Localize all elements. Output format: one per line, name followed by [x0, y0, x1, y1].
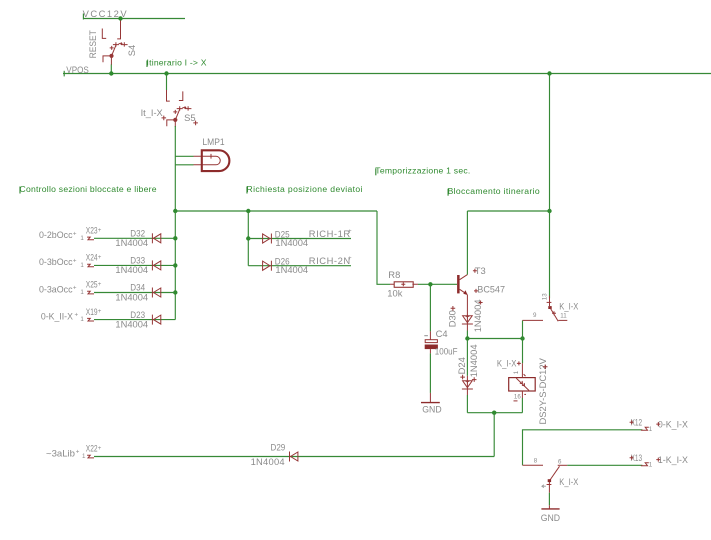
svg-text:K_I-X: K_I-X	[559, 476, 579, 487]
pin RICH-2N	[309, 255, 352, 266]
svg-text:1: 1	[82, 453, 86, 460]
junction bottom node	[492, 411, 496, 415]
label 1-K_I-X	[656, 454, 688, 465]
label D24	[456, 357, 467, 379]
capacitor C4	[424, 328, 457, 357]
relay coil K_I-X	[509, 363, 536, 398]
svg-text:0-K_II-X: 0-K_II-X	[41, 310, 74, 321]
label Controllo sezioni bloccate e libere	[20, 184, 157, 194]
svg-text:Itinerario I -> X: Itinerario I -> X	[147, 58, 207, 68]
resistor R8	[387, 269, 418, 299]
svg-text:S4: S4	[126, 45, 137, 56]
svg-text:1N4004: 1N4004	[472, 299, 483, 332]
svg-text:1N4004: 1N4004	[115, 264, 148, 275]
diode D29	[290, 452, 298, 462]
wire row3	[94, 292, 175, 294]
junction D25	[246, 236, 250, 240]
svg-text:+: +	[75, 312, 79, 319]
svg-text:1N4004: 1N4004	[115, 237, 148, 248]
wire X13 output	[567, 464, 642, 466]
junction bus row2	[173, 263, 177, 267]
pin X19	[87, 318, 94, 321]
junction R8/C4	[428, 282, 432, 286]
svg-text:1N4004: 1N4004	[468, 344, 479, 377]
wire contact to GND	[548, 493, 550, 506]
relay contact K_I-X (top)	[523, 296, 568, 322]
junction bus row3	[173, 290, 177, 294]
svg-text:1N4004: 1N4004	[115, 291, 148, 302]
net VPOS wire	[63, 73, 711, 75]
junction rail/deviatoi	[246, 209, 250, 213]
svg-text:1N4004: 1N4004	[275, 237, 308, 248]
row 1: pin X23, diode D32	[39, 225, 175, 249]
svg-text:9: 9	[533, 312, 537, 319]
svg-text:16: 16	[514, 394, 521, 401]
junction VCC12V/S4	[118, 16, 122, 20]
wire node horizontal	[467, 338, 522, 340]
label 0-3aOcc	[39, 283, 77, 294]
junction VPOS/S5	[164, 71, 168, 75]
diode D24	[462, 376, 473, 395]
svg-text:Controllo sezioni bloccate e l: Controllo sezioni bloccate e libere	[20, 184, 157, 194]
diode D25	[263, 234, 272, 244]
label BC547	[474, 283, 505, 294]
pin X22	[46, 443, 102, 461]
svg-text:1: 1	[80, 235, 84, 242]
svg-text:X23: X23	[86, 225, 98, 236]
label VCC12V	[83, 8, 128, 20]
svg-text:R8: R8	[388, 269, 400, 280]
wire row1	[94, 237, 175, 239]
label X24	[86, 252, 102, 263]
label D30	[446, 306, 457, 327]
ground GND (contact)	[541, 505, 561, 523]
wire pin9 riser	[522, 320, 524, 338]
svg-text:1N4004: 1N4004	[115, 318, 148, 329]
svg-text:+: +	[98, 254, 102, 261]
wire relay pin16 down	[521, 398, 523, 413]
wire D30 to node	[466, 331, 468, 339]
label 0-K_I-X	[656, 419, 688, 430]
row 4: pin X19, diode D23	[41, 306, 175, 330]
wire 3aLib row	[94, 456, 494, 458]
wire D26 branch	[248, 265, 351, 267]
svg-text:0-K_I-X: 0-K_I-X	[658, 419, 689, 430]
label 1N4004 (D30)	[472, 299, 483, 332]
label DS2Y-S-DC12V	[537, 357, 548, 424]
svg-text:13: 13	[542, 293, 549, 300]
svg-text:D24: D24	[456, 357, 467, 374]
svg-text:+: +	[98, 445, 102, 452]
svg-text:GND: GND	[422, 403, 442, 414]
svg-text:+: +	[98, 308, 102, 315]
label Temporizzazione 1 sec.	[375, 166, 470, 176]
svg-text:+: +	[348, 228, 352, 235]
label 1N4004 (D24)	[468, 344, 479, 381]
svg-text:+: +	[73, 257, 77, 264]
wire S4 to VPOS	[110, 65, 112, 74]
wire bloccamento horizontal	[467, 210, 549, 212]
svg-text:Temporizzazione 1 sec.: Temporizzazione 1 sec.	[375, 166, 470, 176]
wire C4 to GND	[429, 353, 431, 393]
label K_I-X (contact top)	[559, 300, 579, 311]
svg-text:1: 1	[513, 370, 520, 374]
wire node to relay pin1	[522, 339, 524, 364]
label Itinerario I -> X	[147, 58, 207, 68]
svg-text:+: +	[76, 448, 80, 455]
svg-text:1: 1	[649, 461, 653, 468]
lamp LMP1	[175, 150, 229, 171]
svg-text:D29: D29	[271, 441, 286, 452]
svg-text:0-3aOcc: 0-3aOcc	[39, 283, 73, 294]
svg-text:0-2bOcc: 0-2bOcc	[39, 229, 73, 240]
svg-text:+: +	[98, 227, 102, 234]
pin RICH-1R	[309, 228, 352, 239]
svg-text:S5: S5	[184, 112, 195, 123]
pin X13	[630, 452, 653, 468]
svg-text:8: 8	[534, 458, 538, 465]
svg-text:+: +	[348, 255, 352, 262]
svg-text:~3aLib: ~3aLib	[46, 447, 75, 458]
svg-text:X24: X24	[86, 252, 98, 263]
junction VPOS/S4	[109, 71, 113, 75]
svg-text:BC547: BC547	[477, 283, 505, 294]
wire deviatoi branch vertical	[247, 211, 249, 266]
transistor T3	[457, 275, 468, 295]
row 2: pin X24, diode D33	[39, 252, 175, 276]
junction VPOS/right branch	[547, 71, 551, 75]
svg-text:+: +	[73, 230, 77, 237]
wire D24 to bottom	[466, 395, 468, 413]
junction node right	[520, 336, 524, 340]
cross It_I-X	[162, 116, 167, 121]
label Richiesta posizione deviatoi	[247, 184, 363, 194]
label K_I-X (contact bottom)	[559, 476, 579, 487]
diode D33	[152, 260, 160, 270]
svg-text:1: 1	[80, 316, 84, 323]
label Bloccamento itinerario	[448, 186, 540, 196]
diode D34	[152, 288, 160, 298]
svg-text:X19: X19	[86, 306, 98, 317]
wire X12 output	[523, 430, 643, 466]
wire VPOS to S5	[166, 74, 168, 91]
junction bus row1	[173, 236, 177, 240]
label X25	[86, 279, 102, 290]
wire bottom node horizontal	[467, 412, 522, 414]
label 0-2bOcc	[39, 229, 77, 240]
wire row2	[94, 264, 175, 266]
pin X24	[87, 264, 94, 267]
wire right branch vertical	[549, 74, 551, 299]
svg-text:Richiesta posizione deviatoi: Richiesta posizione deviatoi	[247, 184, 363, 194]
svg-text:RESET: RESET	[87, 30, 98, 58]
label VPOS	[64, 64, 89, 77]
svg-text:+: +	[73, 285, 77, 292]
diode D23	[152, 315, 160, 325]
junction node emitter	[465, 336, 469, 340]
wire C4 branch	[429, 284, 431, 331]
svg-text:X25: X25	[86, 279, 98, 290]
svg-text:1N4004: 1N4004	[275, 264, 308, 275]
label X19	[86, 306, 102, 317]
pin X23	[87, 237, 94, 240]
wire temporizzazione branch	[377, 211, 390, 284]
svg-text:6: 6	[558, 458, 562, 465]
wire R8 to T3 base	[418, 283, 457, 285]
pin X25	[87, 291, 94, 294]
wire row4	[94, 319, 175, 321]
svg-text:1: 1	[80, 289, 84, 296]
diode D32	[152, 233, 160, 243]
svg-text:1-K_I-X: 1-K_I-X	[658, 454, 689, 465]
svg-text:11: 11	[560, 313, 567, 320]
diode D30	[462, 315, 473, 324]
svg-text:K_I-X: K_I-X	[497, 357, 517, 368]
pin 16 label	[514, 394, 527, 401]
wire T3 emitter to D30	[466, 295, 468, 331]
svg-text:0-3bOcc: 0-3bOcc	[39, 256, 73, 267]
wire node to D24	[466, 339, 468, 376]
svg-text:DS2Y-S-DC12V: DS2Y-S-DC12V	[537, 357, 548, 424]
svg-text:RICH-1R: RICH-1R	[309, 228, 351, 239]
label T3	[473, 265, 486, 276]
row 3: pin X25, diode D34	[39, 279, 175, 303]
wire D25 branch	[248, 238, 351, 240]
switch S5	[167, 90, 192, 127]
svg-text:Bloccamento itinerario: Bloccamento itinerario	[448, 186, 540, 196]
svg-text:1: 1	[649, 426, 653, 433]
pin 8 stub	[523, 464, 544, 466]
pin X12	[630, 416, 653, 432]
svg-text:C4: C4	[436, 328, 448, 339]
svg-text:+: +	[98, 281, 102, 288]
wire left bus	[174, 211, 176, 320]
svg-text:GND: GND	[541, 512, 561, 523]
relay contact K_I-X (bottom)	[542, 466, 560, 492]
svg-text:100uF: 100uF	[435, 346, 458, 357]
switch S4	[102, 21, 127, 66]
junction rail/lamp	[173, 209, 177, 213]
ground GND (C4)	[421, 393, 442, 415]
label X23	[86, 225, 102, 236]
net VCC12V wire	[83, 18, 185, 20]
wire S5 to lamp and rail	[174, 126, 176, 211]
wire riser to 3aLib row	[493, 413, 495, 457]
svg-text:1: 1	[80, 262, 84, 269]
svg-text:It_I-X: It_I-X	[141, 107, 164, 118]
cross S5	[193, 121, 198, 126]
svg-text:LMP1: LMP1	[202, 136, 224, 147]
svg-text:RICH-2N: RICH-2N	[309, 255, 350, 266]
svg-text:D30: D30	[446, 310, 457, 327]
wire T3 collector up	[466, 211, 468, 275]
label 0-3bOcc	[39, 256, 77, 267]
svg-text:VPOS: VPOS	[66, 64, 89, 75]
svg-text:10k: 10k	[387, 288, 402, 299]
svg-text:1N4004: 1N4004	[251, 456, 285, 467]
junction bloccamento	[547, 209, 551, 213]
svg-text:K_I-X: K_I-X	[559, 300, 579, 311]
svg-text:X22: X22	[86, 443, 98, 454]
label 0-K_II-X	[41, 310, 79, 321]
diode D26	[263, 261, 272, 271]
label K_I-X (coil)	[497, 357, 521, 368]
pin 6 stub	[558, 464, 568, 466]
wire rail y211	[175, 210, 377, 212]
